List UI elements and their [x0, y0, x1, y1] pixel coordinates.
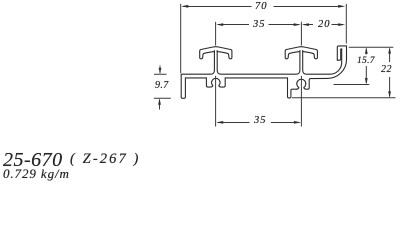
- dim text 35 bottom: [253, 115, 266, 126]
- boss2 centre extension line top: [300, 22, 302, 46]
- dim text 70: [255, 0, 268, 11]
- arrowhead 22 up: [388, 47, 391, 53]
- dim 9.7 bottom extension + arrow tail: [154, 98, 171, 109]
- arrowhead 35 bottom right: [294, 121, 301, 124]
- dim 15.7 line: [365, 49, 367, 84]
- dim 9.7 top extension + arrow tail: [154, 66, 167, 75]
- dim 22 line: [389, 49, 391, 97]
- arrowhead 20 left: [302, 23, 309, 26]
- arrowhead 35 top left: [216, 23, 223, 26]
- dim 70 line: [183, 6, 343, 8]
- boss1 centre extension line top: [215, 22, 217, 46]
- dim 15.7 bottom extension line: [334, 84, 370, 86]
- boss1 centre extension line bottom: [215, 76, 217, 127]
- title part number 25-670: [3, 148, 63, 171]
- dim text 9.7: [154, 80, 168, 91]
- top-right hook bar: [337, 46, 346, 60]
- dim 20 line: [304, 24, 344, 26]
- dim text 20: [317, 19, 330, 30]
- arrowhead 9.7 up: [158, 98, 161, 104]
- plate top right inner elbow into riser: [330, 49, 342, 74]
- weight 0.729 kg/m: [2, 166, 69, 182]
- arrowhead 15.7 up: [365, 47, 368, 53]
- boss2 centre extension line bottom: [300, 76, 302, 127]
- arrowhead 35 bottom left: [216, 121, 223, 124]
- boss 1 mushroom cap: [200, 47, 232, 59]
- dim 35 top line: [218, 24, 299, 26]
- plate bottom edge: [185, 77, 206, 79]
- arrowhead 70 left: [181, 5, 188, 8]
- top-right hook lip inner: [337, 49, 341, 60]
- plate bottom right outer elbow into riser: [327, 46, 346, 78]
- boss 2 mushroom cap: [285, 47, 317, 59]
- arrowhead 35 top right: [294, 23, 301, 26]
- left hook lip: [181, 74, 185, 98]
- arrowhead 9.7 down: [159, 68, 162, 74]
- mid rib: [288, 78, 297, 98]
- arrowhead 20 right: [338, 23, 345, 26]
- title (Z-267): [70, 151, 140, 168]
- dim 15.7/22 top extension line: [349, 46, 394, 48]
- dim 22 bottom extension line: [292, 97, 396, 99]
- arrowhead 15.7 down: [365, 78, 368, 84]
- dim text 22: [380, 64, 391, 75]
- arrowhead 22 down: [388, 91, 391, 97]
- dim text 35 top: [252, 19, 265, 30]
- dim 70 left extension line: [180, 4, 182, 73]
- boss 2 screw channel (omega) with base fin: [297, 78, 328, 89]
- arrowhead 70 right: [338, 5, 345, 8]
- plate top edge: [181, 51, 214, 75]
- dim text 15.7: [356, 55, 374, 65]
- dim 35 bottom line: [218, 122, 299, 124]
- dim 70/20 right extension line: [345, 4, 347, 44]
- boss 1 screw channel (omega): [206, 78, 225, 87]
